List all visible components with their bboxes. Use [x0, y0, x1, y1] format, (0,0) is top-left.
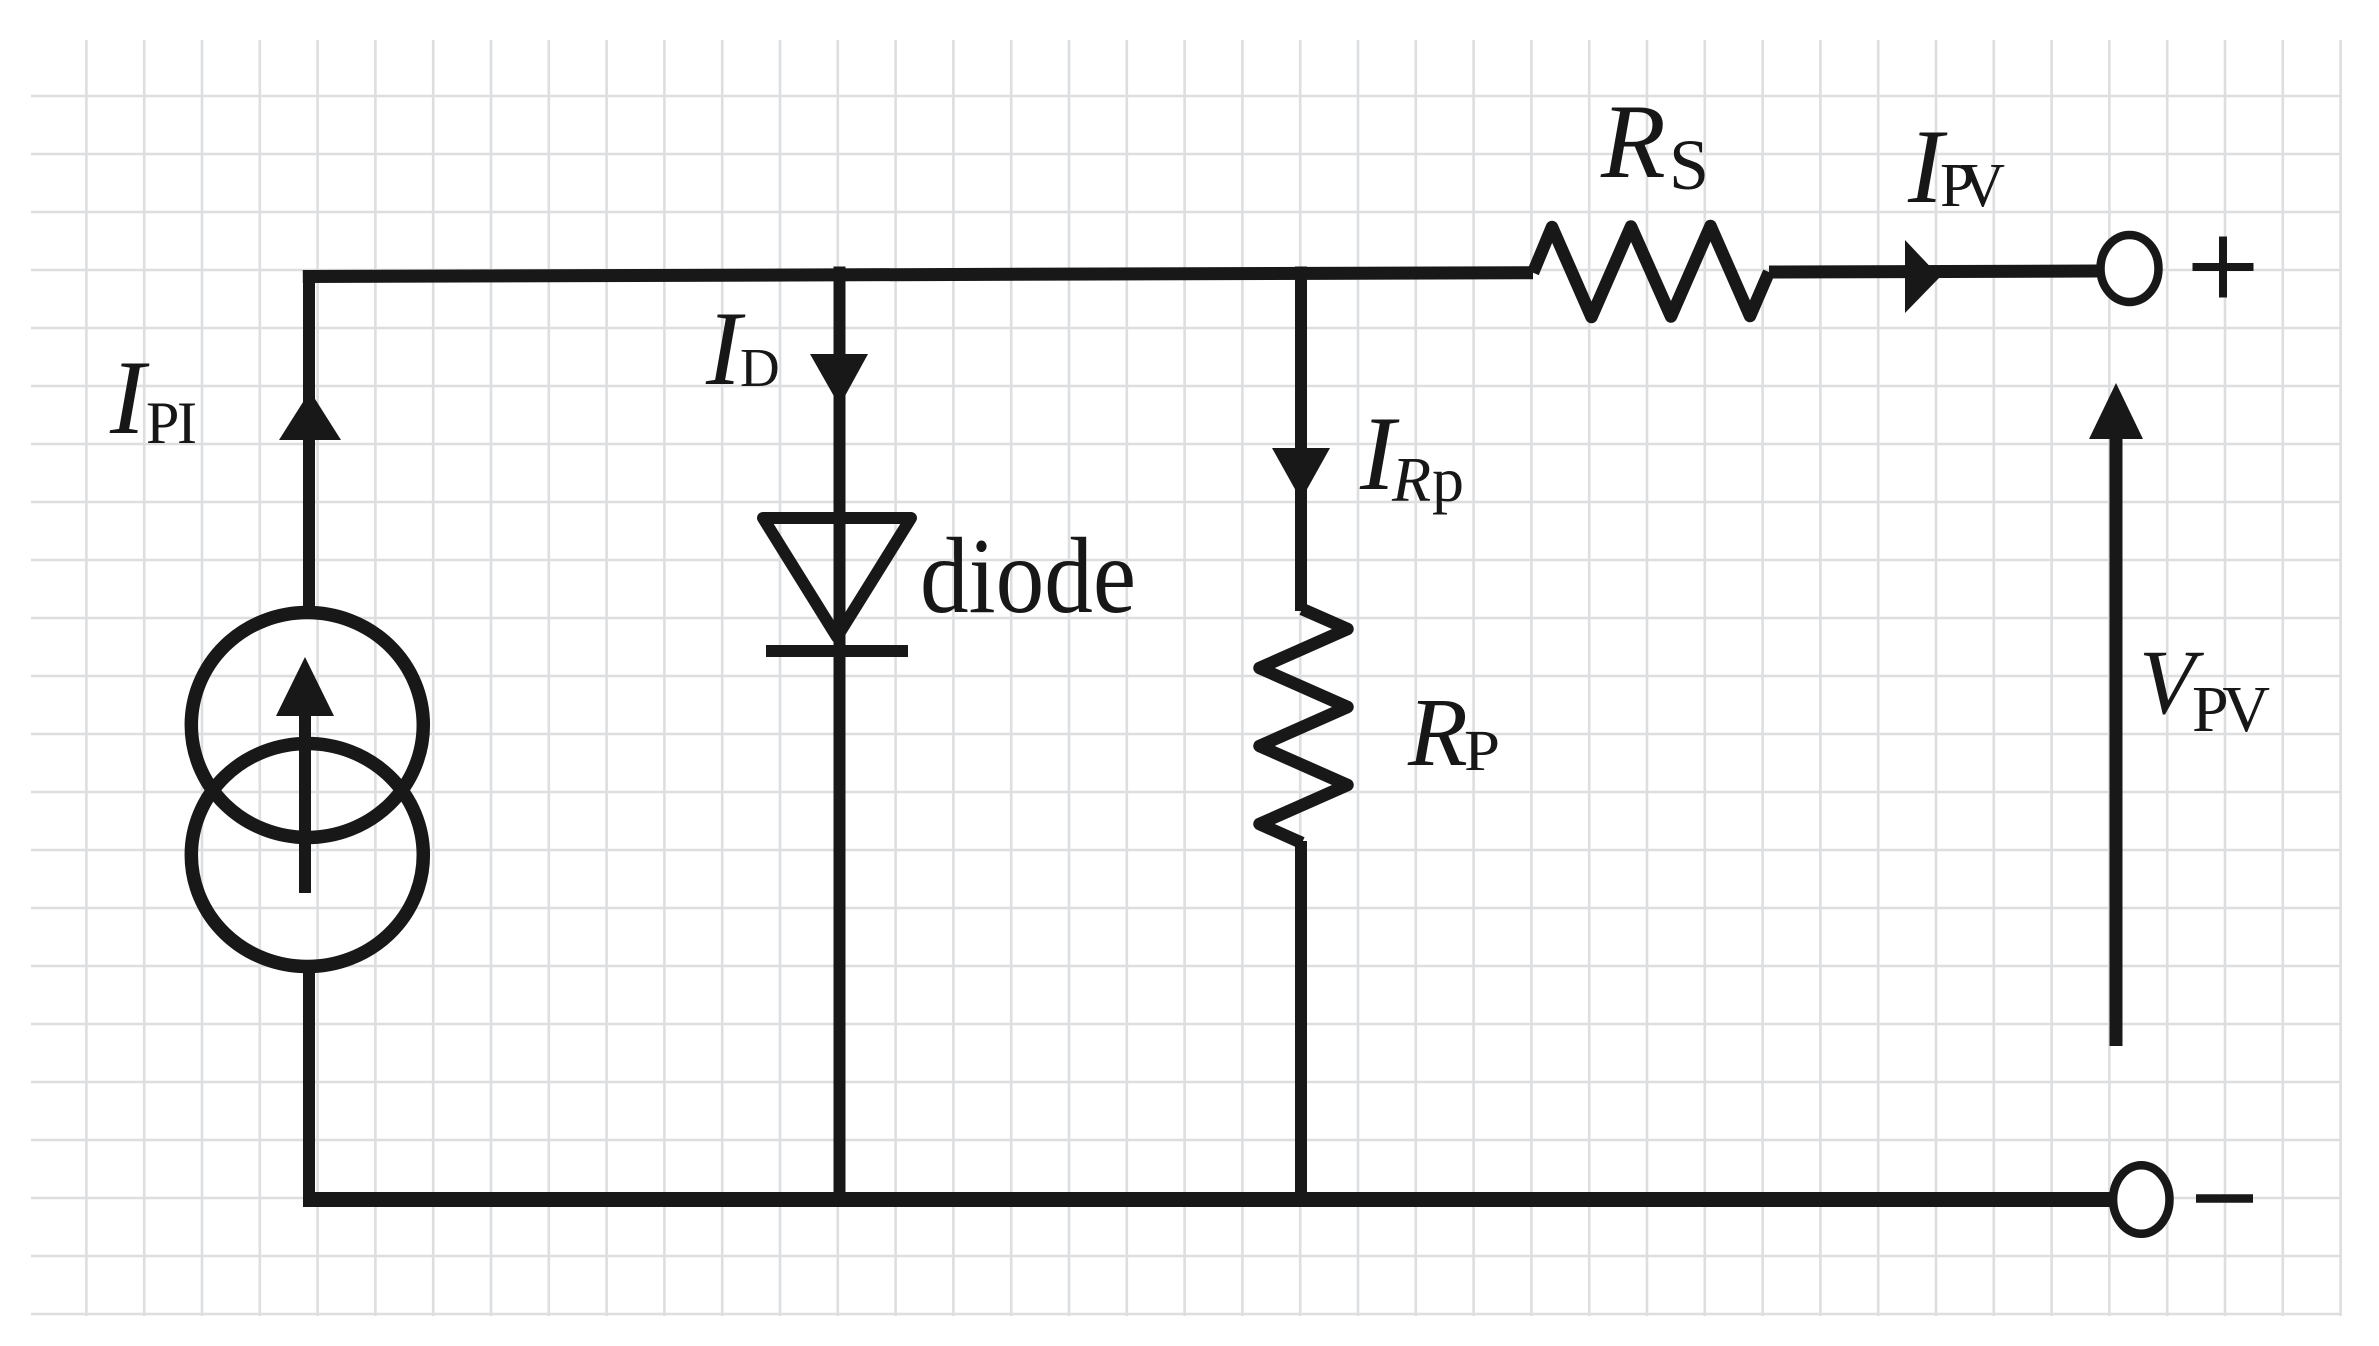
wire: bottom wire — [303, 1192, 2110, 1207]
wire: left vertical below current source — [303, 967, 315, 1200]
arrow VPV head (up) — [2089, 383, 2143, 439]
voltage arrow VPV shaft — [2110, 437, 2123, 1046]
arrow ID (down, on diode branch) — [810, 354, 868, 406]
plus sign at positive terminal — [2193, 237, 2254, 298]
wire: top wire right span (after resistor RS) — [1769, 271, 2097, 272]
minus sign at negative terminal — [2196, 1194, 2253, 1203]
svg-text:R: R — [1407, 679, 1468, 787]
svg-text:P: P — [1464, 718, 1500, 783]
diode D1 triangle — [763, 518, 911, 637]
arrow IPI (up, on left wire) — [279, 391, 341, 440]
current source circle (top) — [191, 613, 423, 838]
diode D1 cathode bar — [766, 645, 908, 657]
resistor RS — [1533, 226, 1769, 317]
svg-text:D: D — [740, 337, 780, 398]
wire: top wire left span — [303, 273, 1533, 277]
wire: left vertical (top segment) — [303, 271, 315, 612]
svg-text:R: R — [1600, 83, 1666, 200]
resistor RP — [1260, 609, 1348, 843]
arrow inside current source (up) — [276, 657, 334, 716]
terminal node - (negative) — [2113, 1165, 2169, 1234]
wire: RP branch vertical (top) — [1295, 267, 1307, 612]
svg-text:R: R — [1391, 444, 1431, 515]
terminal node + (positive) — [2101, 235, 2159, 302]
current source arrow shaft — [299, 712, 311, 893]
svg-text:PI: PI — [146, 390, 197, 456]
current source circle (bottom) — [191, 744, 423, 967]
svg-text:diode: diode — [920, 517, 1136, 636]
svg-text:p: p — [1432, 444, 1464, 515]
svg-text:PV: PV — [2192, 673, 2270, 746]
svg-text:I: I — [109, 339, 150, 456]
wire: diode branch vertical — [834, 267, 846, 1200]
arrow IRp (down, on RP branch) — [1272, 448, 1330, 500]
svg-text:PV: PV — [1940, 152, 2005, 220]
svg-text:S: S — [1669, 125, 1709, 205]
wire: RP branch vertical (bottom) — [1295, 841, 1307, 1200]
arrow IPV (right, on top wire) — [1905, 240, 1940, 313]
